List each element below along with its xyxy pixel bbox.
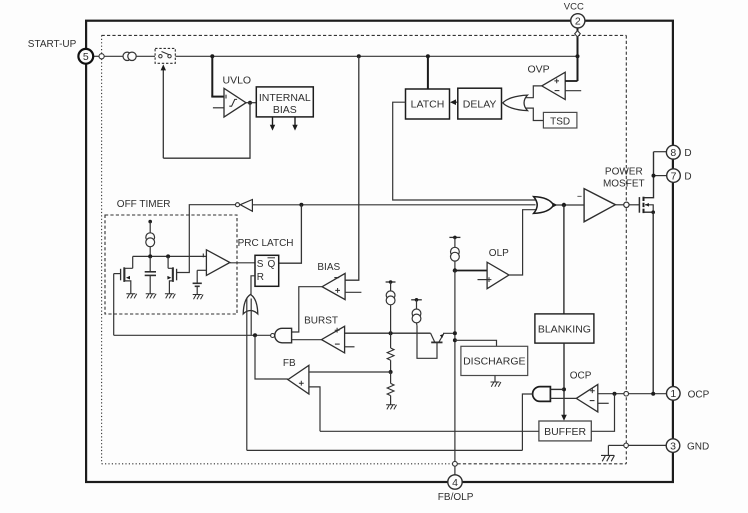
gate OR main (right-facing, 3 input) — [534, 197, 558, 214]
ground off-timer M2 — [165, 294, 175, 299]
svg-text:INTERNAL: INTERNAL — [259, 92, 311, 104]
op-amp BURST comparator (left-facing) — [322, 326, 345, 353]
wire BURST minus stub — [345, 346, 355, 348]
svg-text:1: 1 — [670, 388, 676, 400]
inverter U2 (left-facing) — [236, 200, 253, 212]
svg-text:FB/OLP: FB/OLP — [438, 492, 474, 503]
wire OLP plus input — [455, 270, 487, 272]
svg-text:BLANKING: BLANKING — [538, 324, 591, 336]
svg-text:VCC: VCC — [564, 2, 584, 13]
node row-cap junction — [148, 254, 152, 258]
transistor M1 off-timer — [114, 256, 133, 293]
wire AND bottom input from OCP out — [550, 397, 576, 399]
block OFF TIMER dashed box — [105, 215, 237, 314]
wire main gate output — [556, 204, 584, 206]
internal dotted boundary bottom-left — [102, 463, 453, 465]
current source I4 OLP — [449, 236, 460, 271]
pin 8 D — [666, 145, 680, 159]
svg-text:OLP: OLP — [489, 248, 509, 259]
pin 1 OCP — [667, 387, 681, 401]
wire BIAS plus stub — [345, 291, 361, 293]
svg-text:TSD: TSD — [550, 117, 570, 128]
op-amp off-timer comparator — [203, 250, 230, 276]
block DISCHARGE — [461, 346, 528, 375]
driver amp U3 — [577, 189, 615, 222]
wire gate circle to mosfet — [629, 204, 639, 206]
block BLANKING — [535, 314, 594, 343]
wire Q output riser — [279, 205, 302, 263]
pin 3 GND — [666, 439, 680, 453]
node rail-BIAS junction — [357, 54, 361, 58]
wire AND top input — [550, 388, 564, 390]
block BUFFER — [539, 421, 591, 441]
node rail-UVLO junction — [210, 54, 214, 58]
svg-text:OCP: OCP — [570, 371, 592, 382]
ground off-timer C1 — [146, 294, 156, 299]
wire R input from gate — [251, 276, 255, 295]
wire source to OCP line — [652, 212, 654, 394]
svg-text:PRC LATCH: PRC LATCH — [238, 238, 294, 249]
wire M1 gate to burst line — [113, 274, 115, 336]
svg-text:FB: FB — [283, 358, 296, 369]
wire OVP minus stub — [565, 90, 581, 92]
node divider mid junction — [389, 370, 393, 374]
gate OR to R (up-facing) — [243, 294, 258, 314]
resistor R1 divider — [387, 333, 394, 372]
capacitor C1 off-timer — [145, 256, 156, 293]
resistor R2 divider — [387, 372, 394, 405]
transistor Q1 clamp — [417, 326, 455, 359]
wire VCC drop — [577, 28, 579, 81]
wire blanking line lower with arrow — [561, 343, 567, 421]
svg-text:START-UP: START-UP — [28, 39, 77, 50]
svg-text:UVLO: UVLO — [223, 75, 252, 87]
node rail-LATCH junction — [426, 54, 430, 58]
node VCC boundary diamond — [575, 31, 581, 37]
wire LATCH output to main gate — [393, 102, 536, 200]
wire DELAY to LATCH arrow — [450, 99, 458, 105]
svg-text:3: 3 — [670, 440, 676, 452]
op-amp OVP comparator (left-facing) — [542, 72, 565, 99]
wire LATCH top drop — [427, 56, 429, 89]
wire OR-R left input from bottom rail — [246, 299, 248, 451]
pin 2 VCC — [571, 14, 585, 28]
svg-text:7: 7 — [671, 170, 677, 182]
wire OR-R right input from burst line — [250, 299, 252, 335]
svg-text:4: 4 — [452, 477, 458, 489]
node rail-VCC junction — [576, 54, 580, 58]
wire FB/OLP pin line — [454, 271, 456, 462]
gate OR (OVP/TSD, left-facing) — [502, 95, 528, 111]
svg-text:BURST: BURST — [304, 315, 338, 326]
internal dashed boundary right — [625, 35, 627, 463]
wire BURST plus input line — [345, 332, 431, 334]
svg-text:D: D — [684, 171, 691, 182]
current source I3 divider — [386, 280, 396, 333]
current source I1 startup — [123, 52, 136, 60]
wire BURST output to NAND input — [292, 339, 322, 341]
wire OLP output to main gate — [509, 210, 536, 275]
svg-text:OVP: OVP — [528, 64, 550, 76]
wire drain pin8 — [654, 151, 667, 153]
node startup boundary circle — [99, 54, 104, 59]
svg-text:BIAS: BIAS — [273, 104, 297, 116]
wire buffer right to OCP line — [591, 394, 614, 432]
svg-text:2: 2 — [575, 16, 581, 28]
wire buffer left line — [320, 430, 539, 432]
ground off-timer reference — [193, 295, 203, 300]
wire FB output riser — [255, 335, 288, 379]
svg-text:MOSFET: MOSFET — [603, 179, 645, 190]
node OCP-source junction — [651, 392, 655, 396]
node FB/OLP boundary circle — [453, 461, 458, 466]
POWER MOSFET label — [603, 167, 645, 190]
node discharge junction — [453, 338, 457, 342]
ground divider — [386, 405, 396, 410]
internal dashed boundary bottom-right — [458, 463, 627, 465]
wire FB plus input from buffer line — [309, 387, 320, 431]
svg-text:POWER: POWER — [605, 167, 643, 178]
IC outer border — [86, 21, 673, 482]
wire driver to gate circle — [615, 204, 623, 206]
node GND boundary circle — [624, 443, 629, 448]
wire OVP output to OR gate — [525, 86, 541, 98]
ground GND pin — [601, 455, 615, 461]
block DELAY — [458, 88, 502, 119]
wire drain pin7 — [654, 175, 667, 177]
block LATCH — [406, 89, 450, 119]
internal dashed boundary top — [102, 34, 627, 36]
internal dotted boundary left — [101, 35, 103, 463]
wire inverter output to off-timer — [177, 205, 235, 273]
node gate output junction — [562, 203, 566, 207]
svg-text:OFF TIMER: OFF TIMER — [117, 199, 171, 210]
node emitter junction — [453, 331, 457, 335]
wire NAND output to burst line — [114, 334, 271, 336]
wire BIAS output to NAND — [292, 287, 323, 332]
block INTERNAL BIAS — [256, 87, 313, 117]
gate NAND burst (left-facing) — [271, 328, 292, 343]
node UVLO output — [248, 101, 252, 105]
op-amp UVLO comparator — [224, 88, 246, 117]
node burst line FB junction — [253, 333, 257, 337]
wire UVLO input drop — [211, 56, 224, 96]
pin 5 START-UP — [78, 49, 93, 64]
op-amp BIAS comparator (left-facing) — [322, 273, 345, 299]
node row-M2 junction — [166, 254, 170, 258]
transistor power MOSFET — [639, 152, 653, 213]
svg-text:DELAY: DELAY — [463, 99, 497, 111]
wire BIAS minus input from rail — [345, 56, 359, 280]
wire comparator to S input — [230, 262, 255, 264]
wire UVLO out to internal bias — [246, 102, 256, 104]
wire GND pin lead — [608, 445, 666, 455]
node OLP junction — [453, 268, 457, 272]
wire AND output to bottom rail — [522, 394, 532, 450]
wire FB minus input from divider — [309, 371, 391, 373]
node drain pin7 junction — [652, 174, 656, 178]
svg-text:D: D — [684, 148, 691, 159]
internal bias output arrows — [270, 117, 298, 131]
wire switch control with up arrow — [161, 64, 166, 158]
node source junction — [651, 210, 655, 214]
wire main top rail — [93, 55, 577, 57]
current source I5 clamp base — [411, 298, 422, 326]
op-amp OCP comparator (left-facing) — [576, 385, 598, 412]
wire discharge connection — [455, 340, 497, 346]
transistor M2 off-timer — [167, 256, 177, 293]
wire OLP reference stub — [478, 279, 488, 281]
wire Q feedback to main gate — [252, 204, 535, 206]
node Q junction — [299, 203, 303, 207]
gate AND ocp (left-facing) — [533, 387, 551, 402]
block TSD — [543, 112, 577, 128]
op-amp FB comparator (left-facing) — [288, 365, 309, 394]
battery reference off-timer — [193, 270, 202, 294]
op-amp OLP comparator — [487, 262, 509, 289]
node divider top junction — [389, 331, 393, 335]
svg-text:Q: Q — [268, 259, 276, 270]
svg-text:BUFFER: BUFFER — [544, 426, 586, 438]
svg-text:OCP: OCP — [688, 389, 710, 400]
wire blanking line upper — [563, 205, 565, 314]
node blanking-AND junction — [562, 387, 566, 391]
svg-text:BIAS: BIAS — [317, 262, 340, 273]
ground discharge — [491, 382, 501, 387]
wire FB/OLP pin stem — [454, 466, 456, 475]
wire comparator minus input — [197, 269, 206, 271]
wire TSD to OR gate — [526, 108, 544, 120]
wire OCP plus input to pin1 — [598, 393, 667, 395]
svg-text:GND: GND — [687, 442, 709, 453]
svg-text:LATCH: LATCH — [411, 99, 445, 111]
svg-text:8: 8 — [670, 147, 676, 159]
svg-text:S: S — [257, 259, 264, 270]
svg-text:R: R — [257, 272, 264, 283]
switch S1 startup (dashed box) — [155, 48, 175, 63]
pin 4 FB/OLP — [448, 475, 462, 489]
node OCP boundary circle — [624, 391, 629, 396]
wire OVP plus input from VCC — [565, 80, 577, 82]
wire UVLO feedback to switch — [163, 103, 250, 159]
wire off-timer node row — [133, 255, 207, 257]
svg-text:DISCHARGE: DISCHARGE — [463, 356, 525, 368]
current source I2 off-timer — [146, 220, 155, 257]
node OCP-buffer junction — [613, 392, 617, 396]
node gate boundary circle — [624, 202, 629, 207]
wire discharge ground lead — [494, 376, 496, 382]
svg-text:5: 5 — [83, 51, 89, 63]
block PRC latch SR — [255, 255, 279, 286]
wire bottom outer rail — [247, 449, 523, 451]
pin 7 D — [667, 169, 681, 183]
wire OCP minus stub — [598, 402, 609, 404]
wire UVLO reference stub — [213, 107, 224, 109]
ground off-timer M1 — [126, 294, 136, 299]
